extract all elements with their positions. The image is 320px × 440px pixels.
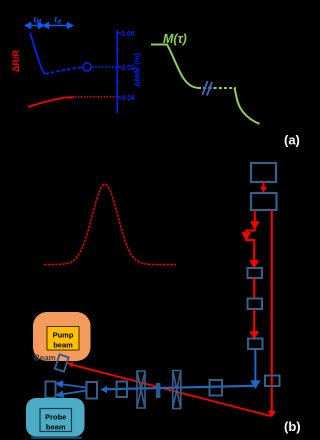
svg-text:beam: beam (46, 423, 66, 432)
svg-text:(a): (a) (284, 133, 300, 148)
probe beam box (40, 409, 72, 432)
red curve dotted tail (75, 96, 117, 98)
probe blob (26, 398, 85, 437)
red line A to B (253, 278, 255, 298)
svg-text:-0.04: -0.04 (119, 95, 135, 102)
polarizer box3 (117, 382, 128, 398)
svg-text:0.00: 0.00 (121, 31, 135, 38)
chopper blade solid (156, 383, 161, 398)
waveplate box E (210, 380, 223, 396)
svg-text:τd: τd (54, 15, 61, 26)
mirror box A (248, 268, 263, 278)
mirror box B (248, 299, 263, 310)
svg-text:ΔR/R: ΔR/R (11, 50, 21, 72)
arrowhead into detector box2 (101, 386, 108, 393)
beamsplitter tilted mirror (55, 354, 69, 371)
lens X2 (173, 371, 181, 409)
green plateau dashed (198, 87, 236, 89)
red reflectivity curve (28, 97, 74, 107)
sample box D (265, 376, 280, 387)
blue curve dotted tail (92, 66, 117, 68)
svg-text:Beam: Beam (34, 354, 56, 363)
detector box1 (46, 382, 56, 399)
blue right axis (117, 30, 120, 113)
blue demagnetization curve (fast drop) (30, 33, 46, 74)
svg-text:Pump: Pump (53, 331, 74, 340)
blue probe line down from C (252, 349, 259, 387)
split beam lower to detector (57, 391, 86, 397)
tau_d double arrow (44, 23, 73, 28)
pump beam box (47, 327, 79, 351)
laser box (251, 163, 276, 182)
OPA box (251, 193, 277, 210)
blue probe horizontal line (104, 386, 254, 390)
red line B to C with arrow (251, 309, 257, 338)
green curve part 2 (235, 88, 260, 124)
red gaussian pulse (44, 184, 176, 264)
svg-text:Probe: Probe (45, 413, 66, 422)
svg-text:(b): (b) (284, 419, 301, 434)
red vertical pump line (271, 210, 273, 412)
axis break slashes (203, 81, 213, 96)
lens X1 (137, 371, 145, 408)
svg-text:beam: beam (53, 341, 73, 350)
red pump diagonal to mirror (72, 365, 271, 416)
blue curve recovery (dashed) (46, 67, 83, 74)
red arrow laser to OPA (260, 182, 267, 193)
green magnetization curve part 1 (151, 45, 198, 89)
conversion box C (248, 339, 263, 350)
red delay line with zigzag (243, 210, 258, 267)
red pump arrowhead down (268, 411, 276, 418)
analyzer box2 (87, 382, 98, 399)
red arrowhead at beamsplitter (67, 362, 73, 367)
svg-text:ΔM/M (%): ΔM/M (%) (133, 53, 142, 87)
split beam upper to detector (57, 382, 86, 388)
pump blob (33, 312, 91, 361)
tau_M double arrow (26, 23, 44, 28)
svg-text:τM: τM (33, 15, 42, 26)
probe blob shadow (31, 437, 82, 439)
circle marker on blue curve (83, 63, 91, 71)
